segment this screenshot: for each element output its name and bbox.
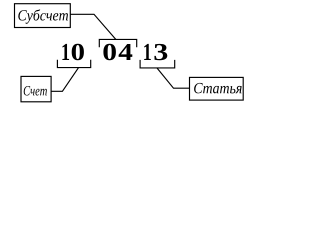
label Субсчет — [18, 9, 68, 23]
wire Счет to bracket under 10 — [51, 68, 78, 92]
bracket over 04 — [99, 39, 136, 47]
bracket under 13 — [140, 60, 175, 68]
label Статья — [194, 83, 242, 93]
number 04 digit 0 — [103, 44, 115, 60]
number 13 digit 3 — [154, 44, 167, 60]
box Статья — [190, 77, 244, 100]
number 10 digit 0 — [72, 44, 84, 60]
number 04 digit 4 — [119, 44, 133, 60]
label Счет — [24, 86, 47, 96]
number 10 digit 1 — [62, 44, 69, 60]
box Субсчет — [15, 4, 71, 28]
box Счет — [21, 76, 51, 101]
wire Статья to bracket under 13 — [157, 68, 190, 88]
number 13 digit 1 — [144, 44, 151, 60]
wire Субсчет to bracket over 04 — [70, 14, 116, 39]
bracket under 10 — [57, 60, 90, 68]
